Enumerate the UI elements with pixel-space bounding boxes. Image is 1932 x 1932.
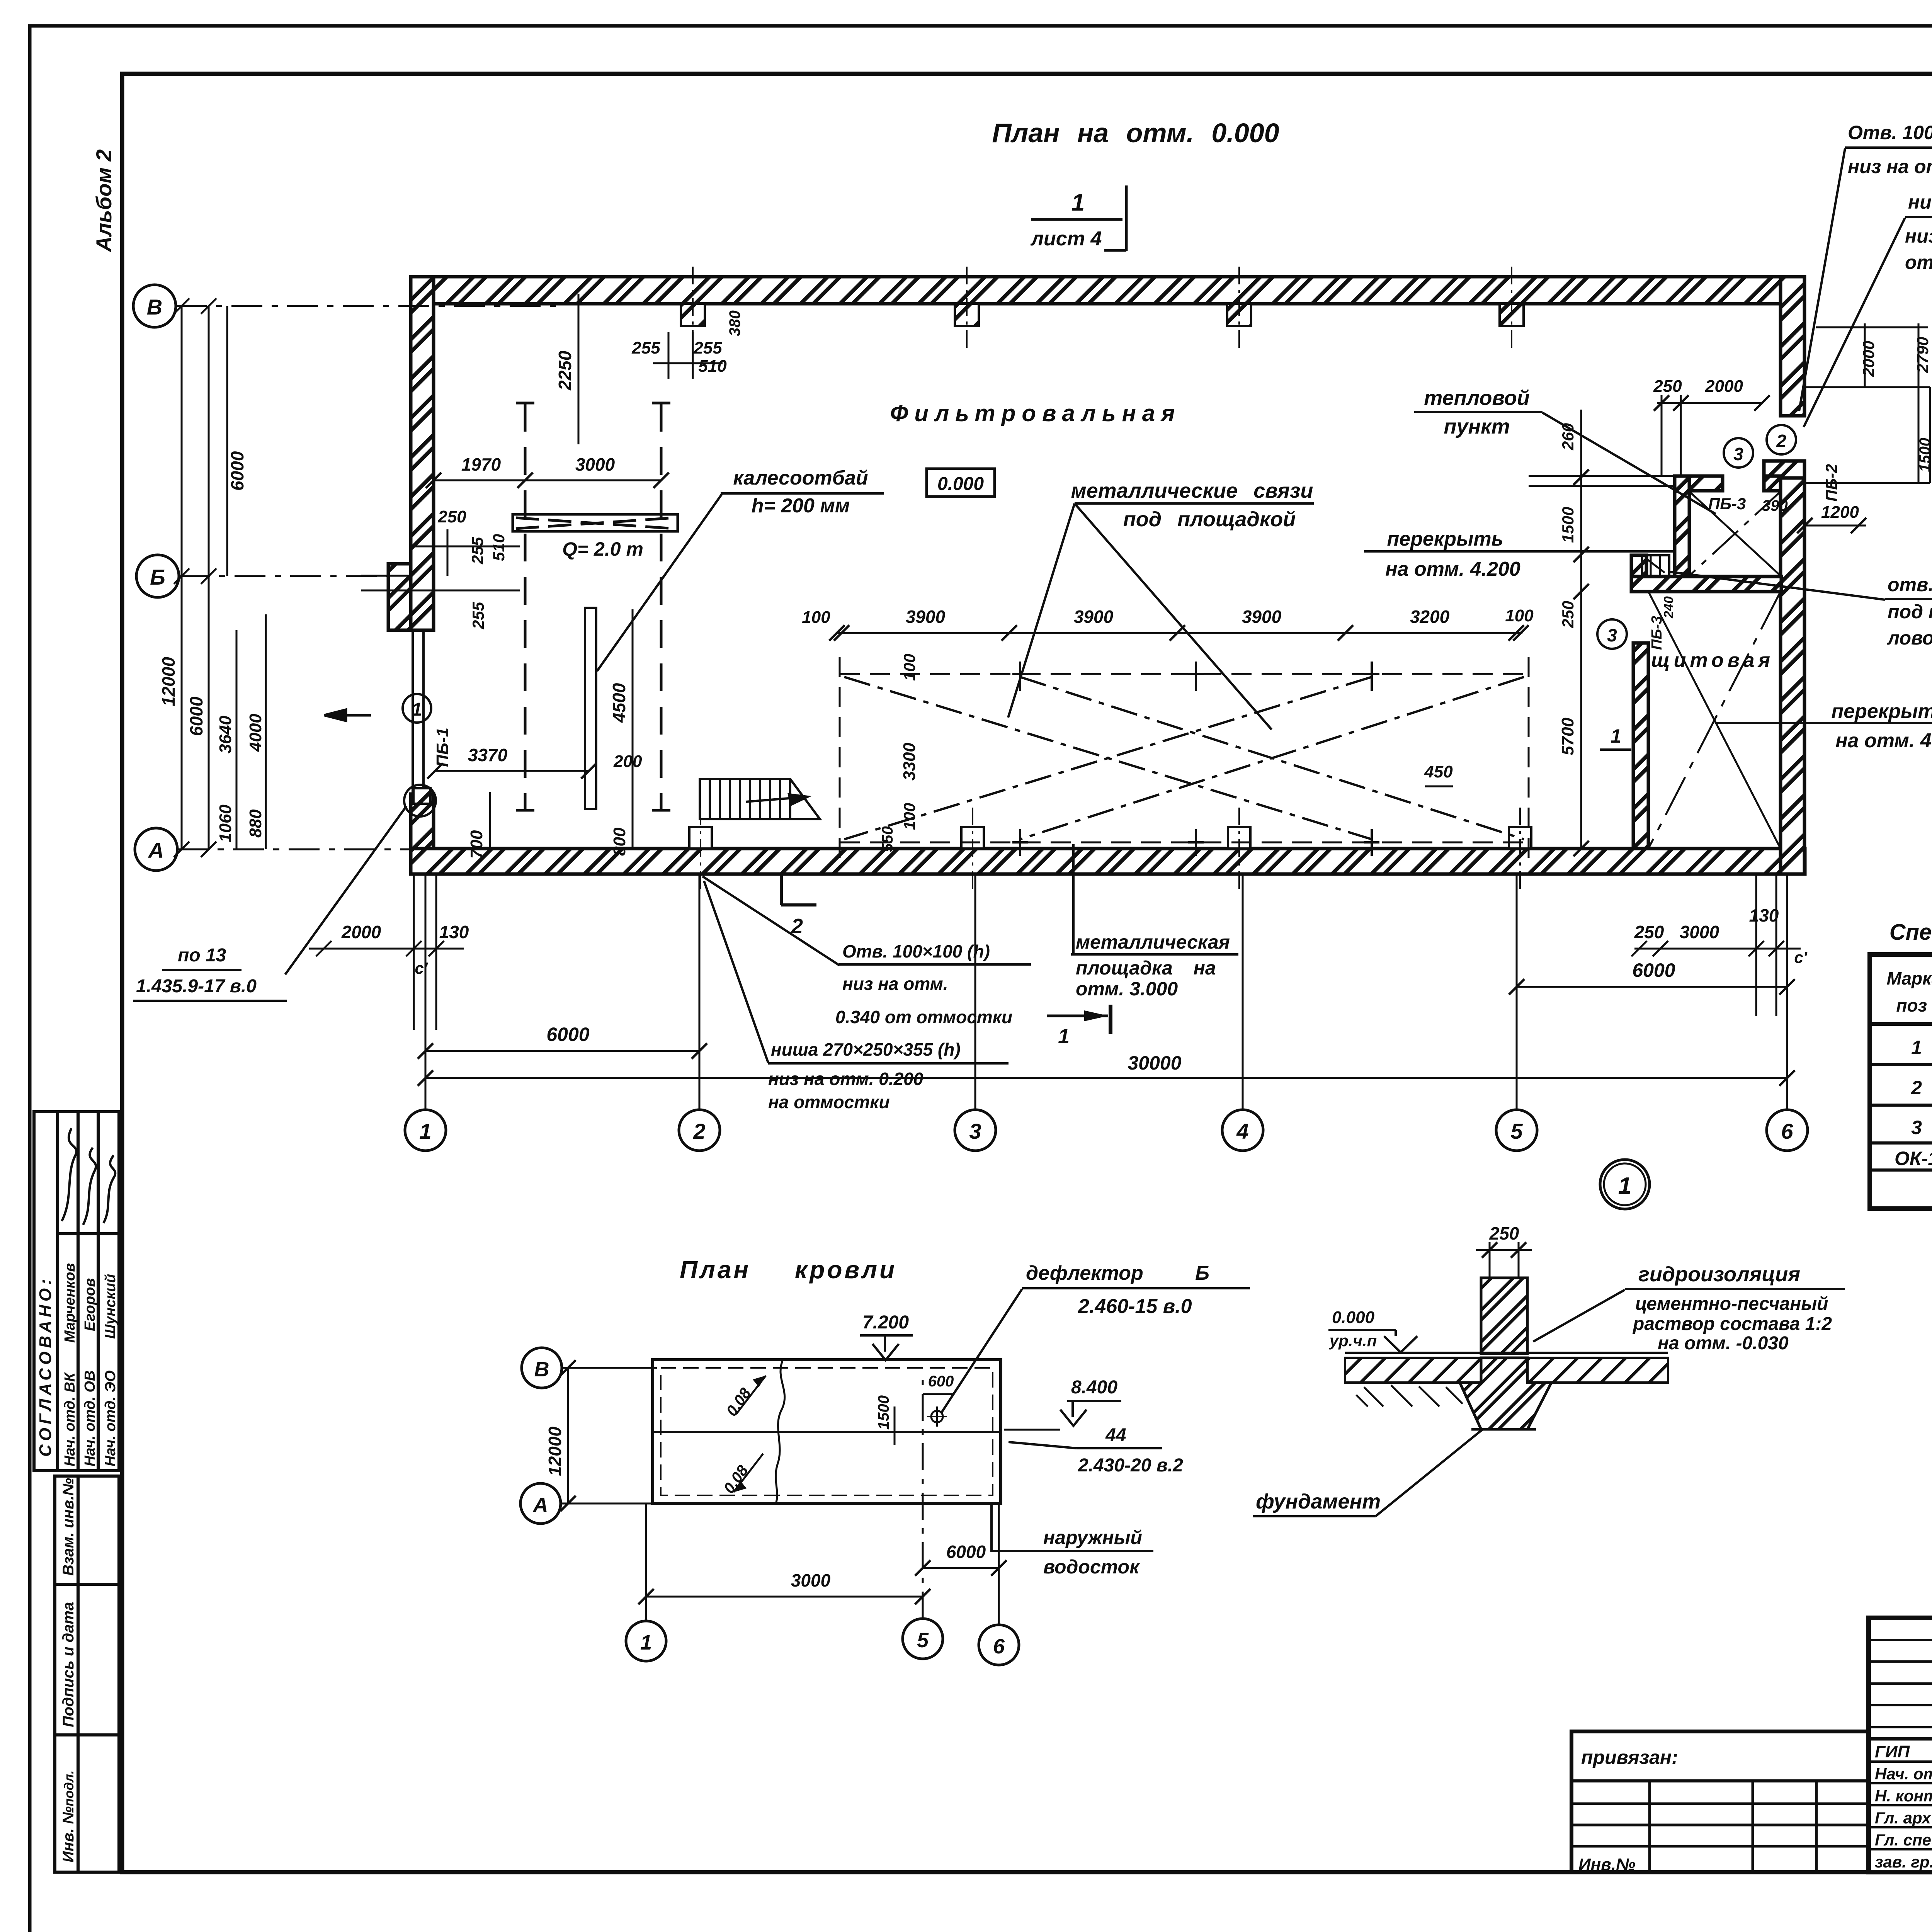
floor line xyxy=(1345,1352,1668,1354)
crane beam Q=2.0t xyxy=(513,514,678,531)
top wall xyxy=(411,277,1804,304)
svg-text:ниша 270×250×355 (h): ниша 270×250×355 (h) xyxy=(771,1039,961,1060)
svg-text:водосток: водосток xyxy=(1043,1556,1140,1578)
svg-text:наружный: наружный xyxy=(1043,1527,1142,1548)
svg-text:Спецификация элементов запол: Спецификация элементов заполнения проемо… xyxy=(1889,920,1932,945)
wall pier xyxy=(1481,1278,1527,1354)
ledge lines at axis B xyxy=(361,576,411,590)
svg-text:Инв. №подл.: Инв. №подл. xyxy=(60,1770,77,1862)
svg-text:7.200: 7.200 xyxy=(862,1312,909,1333)
svg-text:5: 5 xyxy=(917,1629,929,1652)
dim 6000 left bottom xyxy=(425,1050,699,1052)
svg-text:низ на отм. 0.200: низ на отм. 0.200 xyxy=(768,1069,923,1089)
svg-text:дефлектор Б: дефлектор Б xyxy=(1026,1262,1209,1284)
svg-text:Б: Б xyxy=(150,565,165,589)
svg-text:250: 250 xyxy=(1634,922,1664,942)
svg-text:Q= 2.0 т: Q= 2.0 т xyxy=(562,538,643,560)
svg-text:255: 255 xyxy=(469,602,487,629)
svg-text:2.460-15 в.0: 2.460-15 в.0 xyxy=(1078,1295,1192,1318)
dims 250 2000 at teplovoy xyxy=(1657,402,1762,404)
svg-text:260: 260 xyxy=(1559,423,1577,451)
right vertical dim stack xyxy=(1580,410,1582,849)
dim 3370/200 xyxy=(435,770,589,772)
bottom wall xyxy=(411,849,1805,874)
svg-text:3900: 3900 xyxy=(1242,607,1282,627)
dim 30000 xyxy=(425,1077,1787,1079)
svg-text:8.400: 8.400 xyxy=(1071,1377,1117,1398)
svg-text:пункт: пункт xyxy=(1444,415,1510,438)
svg-text:Егоров: Егоров xyxy=(82,1278,98,1331)
svg-text:510: 510 xyxy=(698,357,727,376)
svg-text:255: 255 xyxy=(631,338,660,357)
node 1 bubble xyxy=(1600,1160,1650,1209)
svg-text:Взам. инв.№: Взам. инв.№ xyxy=(60,1478,77,1576)
perekryt area lines xyxy=(1529,476,1675,486)
svg-text:6: 6 xyxy=(993,1635,1005,1658)
svg-text:низ на отм. 0.200 от: низ на отм. 0.200 от xyxy=(1905,225,1932,247)
svg-text:с': с' xyxy=(1794,948,1808,966)
svg-text:2: 2 xyxy=(1776,431,1786,451)
svg-text:1970: 1970 xyxy=(461,454,501,474)
svg-text:2: 2 xyxy=(693,1119,705,1143)
svg-text:металлическая: металлическая xyxy=(1076,931,1230,953)
stairs xyxy=(700,779,820,819)
svg-text:h= 200 мм: h= 200 мм xyxy=(752,495,850,517)
svg-text:на отм. 4.200: на отм. 4.200 xyxy=(1385,558,1520,580)
svg-text:3370: 3370 xyxy=(468,745,508,765)
svg-text:Нач. отд.: Нач. отд. xyxy=(1875,1765,1932,1783)
porch outside door 2 xyxy=(1804,387,1930,483)
svg-text:1500: 1500 xyxy=(875,1395,892,1430)
svg-text:на отм. -0.030: на отм. -0.030 xyxy=(1658,1333,1789,1354)
svg-text:Фильтровальная: Фильтровальная xyxy=(890,400,1181,426)
dim 6000 right bottom xyxy=(1517,986,1787,988)
svg-text:255: 255 xyxy=(468,537,486,565)
svg-text:Альбом 2: Альбом 2 xyxy=(92,149,116,253)
svg-text:тепловой: тепловой xyxy=(1424,386,1529,410)
svg-text:отм. 3.000: отм. 3.000 xyxy=(1076,978,1178,1000)
svg-text:2: 2 xyxy=(1911,1077,1922,1099)
gate PB-1 leaf xyxy=(404,630,436,816)
svg-text:под площадкой: под площадкой xyxy=(1123,508,1296,531)
svg-text:Отв. 100×100 (h): Отв. 100×100 (h) xyxy=(842,941,990,961)
svg-text:0.000: 0.000 xyxy=(937,474,984,494)
svg-text:Гл. спец.: Гл. спец. xyxy=(1875,1831,1932,1849)
svg-text:1: 1 xyxy=(419,1119,431,1143)
X cross small room xyxy=(1689,492,1781,576)
svg-text:3640: 3640 xyxy=(216,716,235,753)
svg-text:зав. гр.: зав. гр. xyxy=(1875,1853,1932,1871)
svg-text:А: А xyxy=(148,838,164,862)
svg-text:800: 800 xyxy=(610,827,629,856)
bottom-left 2000/130 dims xyxy=(309,874,464,1030)
svg-text:с': с' xyxy=(415,959,428,977)
svg-text:гидроизоляция: гидроизоляция xyxy=(1638,1263,1800,1286)
svg-text:100: 100 xyxy=(900,803,918,830)
svg-text:390: 390 xyxy=(1762,497,1788,514)
svg-text:44: 44 xyxy=(1105,1425,1126,1446)
svg-text:1: 1 xyxy=(1911,1037,1922,1058)
svg-text:250: 250 xyxy=(1489,1223,1519,1243)
svg-text:3200: 3200 xyxy=(1410,607,1450,627)
teplovoy punkt left wall xyxy=(1675,476,1689,577)
main title block xyxy=(1869,1618,1932,1872)
signature squiggles xyxy=(62,1128,115,1225)
svg-text:200: 200 xyxy=(613,752,642,771)
roof axis circles xyxy=(522,1348,562,1388)
svg-text:100: 100 xyxy=(900,654,918,681)
svg-text:250: 250 xyxy=(437,507,466,526)
svg-text:3: 3 xyxy=(1733,444,1743,464)
bottom-left corner pier xyxy=(411,794,434,849)
svg-text:600: 600 xyxy=(928,1373,954,1390)
svg-text:3: 3 xyxy=(969,1119,981,1143)
spec table grid xyxy=(1870,954,1932,1209)
svg-text:Отв. 100×100 (h): Отв. 100×100 (h) xyxy=(1848,122,1932,143)
svg-text:ниша 270×250×355 (h): ниша 270×250×355 (h) xyxy=(1908,191,1932,213)
svg-text:6: 6 xyxy=(1781,1119,1793,1143)
svg-text:880: 880 xyxy=(246,809,265,838)
svg-text:по 13: по 13 xyxy=(178,945,226,966)
break wavy line xyxy=(776,1360,785,1503)
X cross shchitovaya xyxy=(1648,592,1781,849)
svg-text:12000: 12000 xyxy=(158,657,179,706)
bottom-right 250/3000/130 dims xyxy=(1631,874,1801,1016)
1200 dim right xyxy=(1805,525,1866,527)
foundation block xyxy=(1460,1358,1551,1429)
roof outline xyxy=(653,1360,1001,1503)
svg-text:240: 240 xyxy=(1662,596,1676,619)
door-3 wall left piece xyxy=(1675,476,1723,491)
svg-text:План кровли: План кровли xyxy=(680,1256,897,1284)
svg-text:Н. контр.: Н. контр. xyxy=(1875,1787,1932,1805)
crane rails dashed xyxy=(525,404,661,810)
svg-text:поз .: поз . xyxy=(1896,995,1932,1015)
svg-text:2000: 2000 xyxy=(341,922,381,942)
svg-text:30000: 30000 xyxy=(1128,1052,1181,1074)
gate arrow xyxy=(325,710,371,721)
svg-text:В: В xyxy=(147,295,162,319)
svg-text:4000: 4000 xyxy=(246,714,265,752)
svg-text:1: 1 xyxy=(1618,1173,1631,1199)
svg-text:калесоотбай: калесоотбай xyxy=(733,467,868,489)
floor hatched band xyxy=(1345,1358,1481,1383)
axis verticals to plan xyxy=(425,874,1787,1110)
svg-text:0.000: 0.000 xyxy=(1332,1308,1375,1327)
svg-text:лового пункта: лового пункта xyxy=(1887,627,1932,649)
svg-text:лист 4: лист 4 xyxy=(1030,228,1102,250)
svg-text:1: 1 xyxy=(640,1631,652,1654)
svg-text:ГИП: ГИП xyxy=(1875,1742,1910,1761)
svg-text:1200: 1200 xyxy=(1821,503,1859,522)
svg-text:5700: 5700 xyxy=(1558,718,1577,755)
platform column ticks xyxy=(1012,662,1379,856)
svg-text:низ на отм.: низ на отм. xyxy=(842,974,948,994)
svg-text:6000: 6000 xyxy=(546,1024,589,1045)
svg-text:3300: 3300 xyxy=(900,743,919,781)
svg-text:Инв.№: Инв.№ xyxy=(1578,1855,1635,1874)
svg-text:3000: 3000 xyxy=(575,454,615,474)
door circles xyxy=(1767,425,1796,454)
svg-text:2.430-20 в.2: 2.430-20 в.2 xyxy=(1078,1455,1183,1476)
svg-text:щитовая: щитовая xyxy=(1651,649,1774,672)
svg-text:Нач. отд. ВК: Нач. отд. ВК xyxy=(62,1372,78,1466)
svg-text:450: 450 xyxy=(1424,762,1453,781)
svg-text:перекрыть: перекрыть xyxy=(1387,528,1503,550)
svg-text:В: В xyxy=(534,1358,549,1381)
svg-text:250: 250 xyxy=(1653,377,1682,396)
svg-text:130: 130 xyxy=(1749,905,1779,925)
roof axis lines xyxy=(561,1368,999,1625)
right wall upper xyxy=(1781,277,1804,416)
slope arrows 0.08 xyxy=(736,1376,766,1414)
svg-text:Марка,: Марка, xyxy=(1887,968,1932,988)
svg-text:1: 1 xyxy=(1071,189,1085,216)
approval block (soglasovano) xyxy=(34,1112,119,1471)
section mark 2 bottom xyxy=(780,874,783,905)
svg-text:700: 700 xyxy=(467,830,486,859)
svg-text:1.435.9-17 в.0: 1.435.9-17 в.0 xyxy=(136,976,257,997)
svg-text:250: 250 xyxy=(1559,601,1577,628)
right wall lower xyxy=(1781,478,1804,874)
svg-text:1: 1 xyxy=(1611,725,1621,747)
svg-text:ур.ч.п: ур.ч.п xyxy=(1329,1332,1377,1350)
privyazan table xyxy=(1571,1731,1869,1872)
vent box xyxy=(1642,555,1669,577)
svg-text:металлические связи: металлические связи xyxy=(1071,479,1313,502)
svg-text:100: 100 xyxy=(1505,606,1534,625)
svg-text:цементно-песчаный: цементно-песчаный xyxy=(1635,1294,1828,1314)
svg-text:ПБ-3: ПБ-3 xyxy=(1649,616,1665,650)
svg-text:раствор состава 1:2: раствор состава 1:2 xyxy=(1632,1314,1832,1334)
platform dim row 100/3900x3/3200/100 xyxy=(837,632,1522,634)
svg-text:отмостки: отмостки xyxy=(1905,252,1932,273)
svg-text:0.340 от отмостки: 0.340 от отмостки xyxy=(835,1007,1012,1027)
interior wall under teplovoy punkt xyxy=(1631,577,1781,592)
left wall xyxy=(411,277,434,630)
svg-text:1060: 1060 xyxy=(216,804,235,842)
svg-text:отв. 500×250 (h): отв. 500×250 (h) xyxy=(1888,574,1932,595)
left axis lines xyxy=(176,306,556,849)
svg-text:2250: 2250 xyxy=(555,350,575,391)
svg-text:6000: 6000 xyxy=(946,1542,986,1562)
svg-text:на отм. 4.200: на отм. 4.200 xyxy=(1835,730,1932,752)
svg-text:под паталком теп-: под паталком теп- xyxy=(1888,601,1932,622)
wheel guard strip xyxy=(585,608,596,809)
deflector xyxy=(931,1411,943,1422)
svg-text:12000: 12000 xyxy=(545,1427,565,1476)
0.000 boxed level xyxy=(927,469,995,497)
svg-text:1: 1 xyxy=(412,699,422,720)
svg-text:низ на отм. 0,340: низ на отм. 0,340 xyxy=(1848,156,1932,177)
svg-text:А: А xyxy=(532,1493,548,1517)
shchitovaya left wall xyxy=(1633,643,1648,849)
pilaster axis dashdot xyxy=(693,267,1520,889)
lower margin cells xyxy=(55,1476,119,1872)
svg-text:5: 5 xyxy=(1510,1119,1523,1143)
svg-text:2000: 2000 xyxy=(1859,341,1878,377)
svg-text:4500: 4500 xyxy=(609,683,629,723)
svg-text:3000: 3000 xyxy=(791,1570,831,1590)
svg-text:привязан:: привязан: xyxy=(1581,1747,1678,1768)
svg-text:ПБ-1: ПБ-1 xyxy=(433,728,452,767)
section mark 1 / list 4 xyxy=(1031,185,1126,251)
svg-text:Нач. отд. ОВ: Нач. отд. ОВ xyxy=(82,1370,98,1466)
svg-text:ОК-1: ОК-1 xyxy=(1895,1148,1932,1169)
axis circles left xyxy=(133,285,176,327)
svg-text:2000: 2000 xyxy=(1705,377,1743,396)
roof dim 12000 xyxy=(567,1368,569,1503)
svg-text:6000: 6000 xyxy=(186,696,206,736)
svg-text:510: 510 xyxy=(490,534,508,561)
right door-2 lintel piece xyxy=(1764,461,1804,478)
left dim stack xyxy=(174,298,266,857)
svg-text:3000: 3000 xyxy=(1680,922,1719,942)
metal brace diagonals xyxy=(844,677,1524,839)
svg-text:3: 3 xyxy=(1911,1117,1922,1138)
door-3 wall right piece xyxy=(1764,476,1781,491)
svg-text:550: 550 xyxy=(879,826,896,852)
bottom wall pilasters xyxy=(689,827,712,849)
svg-text:Гл. арх .: Гл. арх . xyxy=(1875,1809,1932,1827)
metal platform dashed outline xyxy=(840,657,1529,860)
gate position circle 1 xyxy=(403,694,431,723)
bottom axis circles xyxy=(405,1110,446,1151)
svg-text:130: 130 xyxy=(439,922,469,942)
roof dim 6000 xyxy=(923,1567,999,1569)
roof dim 3000 xyxy=(646,1596,923,1598)
svg-text:на отмостки: на отмостки xyxy=(768,1092,890,1112)
svg-text:1500: 1500 xyxy=(1559,507,1577,543)
svg-text:380: 380 xyxy=(726,310,743,336)
svg-text:перекрыть: перекрыть xyxy=(1831,700,1932,723)
left pier at axis B xyxy=(388,564,411,630)
svg-text:Нач. отд. ЭО: Нач. отд. ЭО xyxy=(102,1371,119,1466)
svg-text:2790: 2790 xyxy=(1913,337,1932,373)
svg-text:Марченков: Марченков xyxy=(62,1263,78,1343)
top wall pilasters xyxy=(681,304,705,326)
svg-text:площадка на: площадка на xyxy=(1076,957,1216,979)
ground strokes xyxy=(1356,1385,1463,1406)
top-left dims 1970/3000 xyxy=(434,480,661,481)
svg-text:1: 1 xyxy=(1058,1025,1070,1048)
svg-text:4: 4 xyxy=(1236,1119,1248,1143)
svg-text:СОГЛАСОВАНО:: СОГЛАСОВАНО: xyxy=(36,1276,55,1457)
svg-text:6000: 6000 xyxy=(227,451,247,491)
svg-text:255: 255 xyxy=(693,338,722,357)
svg-text:ПБ-3: ПБ-3 xyxy=(1708,495,1746,513)
svg-text:Шунский: Шунский xyxy=(102,1274,119,1339)
dim 2250 xyxy=(578,294,580,444)
svg-text:6000: 6000 xyxy=(1632,959,1675,981)
dim 4500/800/700 xyxy=(632,609,634,849)
svg-text:3900: 3900 xyxy=(906,607,946,627)
svg-text:Подпись и дата: Подпись и дата xyxy=(60,1602,77,1727)
svg-text:План на отм. 0.000: План на отм. 0.000 xyxy=(992,118,1279,148)
svg-text:3: 3 xyxy=(1607,625,1617,645)
svg-text:100: 100 xyxy=(802,608,830,627)
section mark 1 bottom xyxy=(1047,1015,1108,1017)
svg-text:3900: 3900 xyxy=(1074,607,1114,627)
svg-text:фундамент: фундамент xyxy=(1256,1490,1381,1513)
